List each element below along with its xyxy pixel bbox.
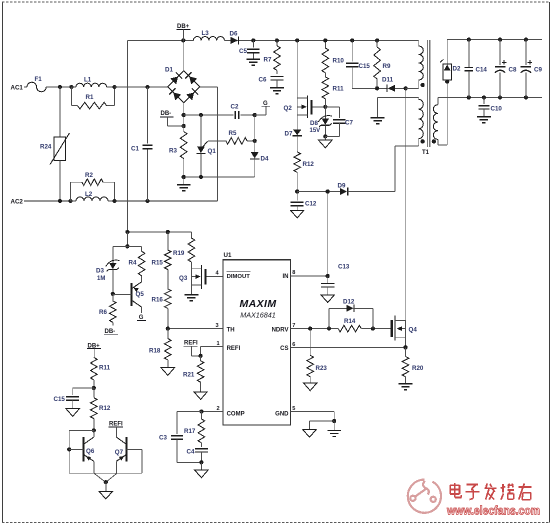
diode D11	[382, 77, 406, 93]
node Q1 cathode junction	[199, 175, 203, 179]
bridge rectifier D1	[165, 67, 200, 103]
svg-text:Q6: Q6	[86, 448, 95, 455]
svg-text:COMP: COMP	[227, 411, 245, 417]
node DB- label	[160, 111, 184, 126]
wire	[126, 232, 128, 246]
svg-text:DB+: DB+	[177, 24, 190, 30]
transformer T1 primary winding	[418, 40, 424, 88]
svg-text:R1: R1	[86, 94, 94, 101]
capacitor C12	[291, 192, 317, 211]
wire	[297, 191, 340, 193]
node C4 bottom junction	[199, 460, 203, 464]
wire REFI pin	[201, 346, 224, 355]
svg-text:R17: R17	[184, 428, 196, 435]
svg-text:IN: IN	[283, 274, 289, 280]
capacitor C15	[346, 40, 371, 88]
wire IN pin	[291, 275, 328, 277]
diode D2	[440, 40, 461, 82]
wire mirror bottom	[69, 472, 142, 474]
svg-text:REFI: REFI	[109, 421, 123, 427]
svg-text:6: 6	[292, 342, 295, 348]
svg-text:Q2: Q2	[284, 105, 293, 112]
node DB+ rail junction	[181, 38, 185, 42]
diode D6	[230, 31, 239, 45]
transistor Q5	[113, 282, 145, 307]
inductor L2	[71, 191, 115, 201]
node C14 top junction	[467, 38, 471, 42]
resistor R4	[129, 246, 145, 281]
svg-text:DIMOUT: DIMOUT	[227, 274, 251, 280]
svg-text:8: 8	[292, 270, 295, 276]
transistor Q2	[284, 95, 326, 118]
capacitor C4	[187, 448, 208, 462]
svg-text:Q5: Q5	[136, 291, 145, 298]
node AC2 label	[11, 199, 24, 206]
node R23 top junction	[308, 327, 312, 331]
svg-text:www.elecfans.com: www.elecfans.com	[446, 504, 540, 518]
node Q1 anode junction	[199, 113, 203, 117]
svg-text:GND: GND	[275, 411, 289, 417]
node Q6 base junction	[67, 447, 71, 451]
transistor Q6	[69, 430, 95, 473]
svg-text:C15: C15	[359, 63, 371, 70]
node Q2 gate node	[323, 105, 327, 109]
ground	[477, 117, 491, 123]
capacitor C9	[521, 40, 543, 98]
svg-text:L2: L2	[85, 191, 93, 198]
resistor R21	[183, 356, 204, 392]
svg-text:R5: R5	[229, 130, 237, 137]
zener D8	[310, 107, 332, 137]
node F1-R24 junction	[58, 85, 62, 89]
svg-text:C1: C1	[131, 146, 139, 153]
thyristor Q1	[196, 115, 216, 177]
ground	[304, 383, 317, 391]
resistor R20	[402, 347, 424, 383]
node DB- label	[104, 329, 118, 335]
capacitor C6	[259, 77, 284, 88]
resistor R1	[71, 87, 114, 109]
svg-text:Q7: Q7	[115, 449, 124, 456]
node U1 pin label CS	[280, 346, 288, 352]
svg-text:R19: R19	[173, 250, 185, 257]
resistor R5	[208, 130, 255, 144]
node DB- junction	[182, 124, 186, 128]
node C15 rail junction	[350, 38, 354, 42]
node MAXIM logo	[240, 298, 277, 310]
transformer T1 core	[427, 40, 429, 147]
node bridge-bottom junction	[182, 113, 186, 117]
svg-text:C12: C12	[305, 201, 317, 208]
zener D3	[96, 246, 119, 294]
ground	[194, 392, 207, 400]
transistor Q4	[392, 316, 418, 348]
svg-text:AC2: AC2	[11, 199, 24, 206]
svg-text:5: 5	[292, 406, 295, 412]
node pin 3	[216, 323, 219, 329]
node C8 bottom junction	[498, 95, 502, 99]
svg-text:1: 1	[217, 341, 220, 347]
resistor R17	[184, 412, 205, 447]
node MAX16841 label	[240, 311, 276, 320]
svg-text:R14: R14	[344, 318, 356, 325]
node C9 bottom junction	[524, 95, 528, 99]
node DB+ label	[87, 343, 101, 357]
svg-text:REFI: REFI	[184, 341, 198, 347]
wire	[115, 86, 168, 88]
resistor R11	[322, 73, 344, 107]
resistor R2	[71, 172, 115, 201]
diode D12	[329, 298, 373, 328]
resistor R15	[152, 232, 172, 270]
svg-text:R23: R23	[316, 365, 328, 372]
node T1 label	[422, 150, 430, 156]
wire	[46, 86, 71, 88]
ground	[270, 88, 284, 94]
node D8-C7 junction	[323, 134, 327, 138]
wire	[94, 473, 117, 482]
resistor R10	[322, 40, 344, 72]
node U1 pin label NDRV	[272, 328, 289, 334]
wire COMP pin	[201, 411, 223, 413]
transistor Q7	[115, 437, 142, 473]
svg-text:D7: D7	[285, 130, 293, 137]
node pin 5	[292, 406, 295, 412]
node R15 top junction	[166, 230, 170, 234]
node U1 pin label IN	[283, 274, 289, 280]
svg-text:R11: R11	[333, 86, 345, 93]
node pin 2	[217, 406, 220, 412]
ground	[371, 97, 419, 123]
svg-text:D6: D6	[230, 31, 238, 38]
node Q4 source junction	[403, 345, 407, 349]
svg-text:R10: R10	[333, 58, 345, 65]
transformer T1 bias winding	[395, 97, 425, 191]
svg-text:2: 2	[217, 406, 220, 412]
svg-text:R7: R7	[264, 57, 272, 64]
svg-text:R12: R12	[99, 405, 111, 412]
diode D7	[285, 129, 303, 152]
svg-text:R21: R21	[183, 371, 195, 378]
node R3 bottom junction	[182, 175, 186, 179]
svg-text:C10: C10	[491, 106, 503, 113]
node GND junction	[332, 419, 336, 423]
resistor R19	[173, 232, 195, 268]
node REFI label	[109, 421, 124, 437]
wire bias row	[352, 87, 388, 89]
node DB+ label	[177, 24, 191, 41]
node watermark url	[446, 504, 540, 518]
resistor R16	[152, 270, 172, 329]
ground	[321, 295, 334, 303]
svg-text:C2: C2	[231, 104, 239, 111]
node L1 right junction	[113, 85, 117, 89]
ground	[246, 59, 260, 65]
transformer T1 secondary winding	[432, 82, 448, 146]
diode D4	[250, 152, 269, 177]
svg-text:D8: D8	[310, 120, 318, 127]
node mirror ground junction	[104, 480, 108, 484]
node C14 bottom junction	[467, 95, 471, 99]
svg-text:L1: L1	[84, 77, 92, 84]
node C5 junction	[251, 38, 255, 42]
wire DC rail	[126, 40, 128, 232]
wire CS row	[291, 346, 406, 348]
wire Q2 column	[296, 40, 298, 129]
node D12 left junction	[327, 327, 331, 331]
resistor R3	[169, 126, 187, 177]
svg-text:Q1: Q1	[208, 148, 217, 155]
node D3-R4 junction	[125, 244, 129, 248]
svg-text:C7: C7	[345, 120, 353, 127]
node watermark logo	[408, 480, 441, 513]
wire	[254, 115, 256, 152]
node pin 1	[217, 341, 220, 347]
capacitor C15	[54, 388, 94, 409]
node R7 junction	[275, 38, 279, 42]
svg-text:R18: R18	[149, 347, 161, 354]
svg-text:C9: C9	[534, 67, 542, 74]
ground	[303, 430, 316, 438]
wire top rail left	[127, 39, 193, 41]
ground	[99, 482, 112, 499]
svg-text:DB-: DB-	[161, 111, 172, 117]
node pin 6	[292, 342, 295, 348]
ground	[319, 136, 332, 147]
node R9 rail junction	[375, 38, 379, 42]
node REFI label	[184, 341, 201, 356]
svg-text:R3: R3	[169, 148, 177, 155]
svg-text:CS: CS	[280, 346, 288, 352]
ground	[195, 462, 208, 477]
svg-text:R6: R6	[99, 309, 107, 316]
svg-text:AC1: AC1	[11, 85, 24, 92]
svg-text:7: 7	[292, 323, 295, 329]
node R5-D4 junction	[253, 139, 257, 143]
ground	[399, 384, 413, 390]
svg-text:REFI: REFI	[227, 346, 241, 352]
svg-text:L3: L3	[202, 30, 210, 37]
node TH junction	[166, 327, 170, 331]
inductor L3	[193, 30, 224, 40]
node D12 right junction	[371, 327, 375, 331]
svg-text:T1: T1	[422, 150, 430, 156]
capacitor C7	[325, 107, 353, 137]
capacitor C14	[465, 40, 488, 98]
node pin 8	[292, 270, 295, 276]
node U1 pin label DIMOUT	[227, 271, 251, 280]
svg-text:D1: D1	[165, 67, 173, 74]
svg-text:R24: R24	[40, 144, 52, 151]
wire bridge top to rail	[183, 40, 185, 71]
svg-text:R9: R9	[383, 63, 391, 70]
resistor R12	[294, 152, 315, 192]
svg-text:D11: D11	[382, 77, 394, 84]
node L2 left junction	[69, 199, 73, 203]
node G stub	[137, 307, 146, 321]
ground	[177, 177, 191, 191]
ground	[185, 295, 199, 301]
node U1 pin label GND	[275, 411, 289, 417]
capacitor C2	[231, 104, 255, 120]
ground	[291, 210, 304, 218]
svg-text:C4: C4	[187, 448, 195, 455]
node C8 top junction	[498, 38, 502, 42]
svg-text:R20: R20	[412, 365, 424, 372]
op-amp U1 package	[223, 252, 291, 425]
resistor R12	[91, 388, 111, 430]
ground	[161, 368, 174, 376]
svg-text:D9: D9	[338, 182, 346, 189]
resistor R11	[91, 357, 111, 388]
fuse F1	[27, 76, 46, 92]
svg-text:R4: R4	[129, 259, 137, 266]
capacitor C8	[495, 40, 517, 98]
capacitor C13	[321, 263, 350, 295]
wire tap row	[406, 87, 419, 89]
node COMP junction	[199, 409, 203, 413]
svg-text:R12: R12	[303, 161, 315, 168]
svg-text:MAX16841: MAX16841	[240, 311, 276, 320]
node Q2 drain junction	[295, 38, 299, 42]
node R11-R12 junction	[92, 386, 96, 390]
resistor R23	[307, 329, 328, 383]
diode D9	[338, 182, 396, 195]
transistor Q3	[179, 265, 223, 295]
wire node row	[184, 114, 234, 116]
svg-text:R16: R16	[152, 297, 164, 304]
resistor R14	[338, 318, 361, 332]
node R12 bottom junction	[295, 189, 299, 193]
wire	[310, 421, 335, 430]
node watermark text	[450, 483, 532, 500]
node R10 rail junction	[323, 38, 327, 42]
node IN junction	[326, 274, 330, 278]
svg-text:C6: C6	[259, 77, 267, 84]
node AC1 label	[11, 85, 24, 92]
svg-text:U1: U1	[224, 252, 232, 259]
svg-text:R11: R11	[99, 365, 111, 372]
node pin 4	[216, 271, 220, 277]
wire control rail	[127, 231, 191, 233]
node D2 anode junction	[445, 80, 449, 84]
node R24-AC2 junction	[58, 199, 62, 203]
resistor R6	[99, 294, 116, 326]
wire top rail right	[239, 39, 419, 41]
wire mirror left loop	[69, 430, 94, 473]
resistor R9	[374, 40, 391, 88]
wire bridge bottom	[183, 102, 185, 126]
node C2-G junction	[253, 113, 257, 117]
node L1 left junction	[69, 85, 73, 89]
node C10 junction	[482, 95, 486, 99]
wire	[113, 245, 142, 247]
svg-text:R2: R2	[85, 172, 93, 179]
resistor R7	[264, 40, 281, 74]
ground	[327, 421, 341, 436]
svg-text:C3: C3	[159, 435, 167, 442]
svg-text:1M: 1M	[97, 276, 105, 282]
node G stub	[255, 101, 270, 115]
svg-text:C5: C5	[239, 48, 247, 55]
svg-text:Q3: Q3	[179, 275, 188, 282]
svg-text:G: G	[263, 101, 268, 107]
node C9 top junction	[524, 38, 528, 42]
inductor L1	[71, 77, 114, 88]
capacitor C5	[239, 40, 260, 59]
node REFI junction	[199, 354, 203, 358]
capacitor C10	[478, 98, 502, 117]
svg-text:TH: TH	[227, 328, 235, 334]
node tap junction	[404, 86, 408, 90]
svg-text:C15: C15	[54, 396, 66, 403]
node C1 bottom junction	[146, 199, 150, 203]
capacitor C1	[131, 87, 153, 201]
svg-text:MAXIM: MAXIM	[240, 298, 277, 310]
node U1 pin label REFI	[227, 346, 241, 352]
wire C13 column	[327, 192, 329, 277]
varistor R24	[40, 87, 70, 201]
svg-text:R15: R15	[152, 259, 164, 266]
wire AC2 to bridge	[115, 87, 218, 201]
resistor R18	[149, 329, 171, 368]
ground	[66, 409, 79, 417]
node L2 right junction	[113, 199, 117, 203]
node R9 bottom junction	[375, 86, 379, 90]
node U1 pin label COMP	[227, 411, 245, 417]
svg-text:D2: D2	[453, 66, 461, 73]
svg-text:C13: C13	[338, 263, 350, 270]
wire Q4 drain line	[405, 88, 407, 320]
svg-text:D4: D4	[261, 156, 269, 163]
wire output top rail	[447, 39, 542, 41]
wire GND pin	[291, 412, 335, 422]
node D3 cathode junction	[111, 292, 115, 296]
node pin 7	[292, 323, 295, 329]
wire TH row	[168, 328, 223, 330]
svg-text:C8: C8	[509, 67, 517, 74]
wire output bottom rail	[438, 97, 542, 99]
node U1 pin label TH	[227, 328, 235, 334]
svg-text:C14: C14	[476, 67, 488, 74]
svg-text:F1: F1	[35, 76, 43, 83]
wire	[24, 200, 71, 202]
wire bottom loop	[184, 176, 255, 178]
node rail corner junction	[125, 230, 129, 234]
wire	[24, 86, 27, 88]
wire NDRV row	[291, 328, 392, 330]
node C1 top junction	[146, 85, 150, 89]
svg-text:15V: 15V	[310, 128, 321, 134]
svg-text:D3: D3	[96, 268, 104, 275]
wire	[224, 39, 230, 41]
node mirror top junction	[92, 428, 96, 432]
svg-text:D12: D12	[343, 298, 355, 305]
svg-text:3: 3	[216, 323, 219, 329]
svg-text:NDRV: NDRV	[272, 328, 289, 334]
capacitor C3	[159, 412, 201, 463]
node C13 row junction	[326, 189, 330, 193]
svg-text:Q4: Q4	[409, 327, 418, 334]
